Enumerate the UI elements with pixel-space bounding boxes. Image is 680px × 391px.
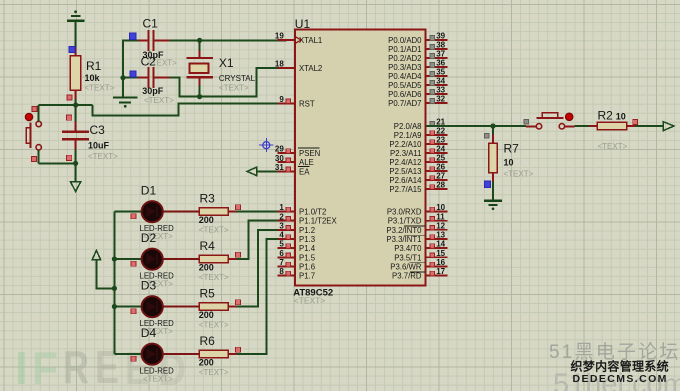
pin marker pin 37 (430, 54, 435, 59)
svg-text:F: F (32, 342, 58, 391)
svg-text:P2.5/A13: P2.5/A13 (389, 167, 421, 176)
svg-text:10: 10 (504, 158, 514, 168)
wire C2 to XTAL2 pin 18 (170, 68, 287, 97)
resistor R4 (199, 255, 237, 262)
pin 24 P2.3/A11 stub (425, 152, 447, 154)
pin 8 P1.7 stub (278, 275, 296, 277)
pin 3 P1.2 stub (278, 229, 296, 231)
junction R7 (490, 123, 495, 128)
svg-text:C1: C1 (143, 17, 159, 31)
resistor R1 (70, 48, 80, 100)
origin marker (blue crosshair) (259, 138, 273, 152)
pin marker pin 8 (286, 271, 291, 276)
pin marker pin 26 (430, 167, 435, 172)
pin marker pin 32 (430, 99, 435, 104)
svg-text:P3.7/RD: P3.7/RD (392, 272, 422, 281)
pin marker pin 9 (286, 99, 291, 104)
pin 6 P1.5 stub (278, 256, 296, 258)
svg-text:9: 9 (279, 95, 284, 104)
pin 14 P3.4/T0 stub (425, 247, 447, 249)
svg-text:XTAL2: XTAL2 (299, 64, 322, 73)
power symbol (top rail) (67, 10, 85, 20)
svg-text:26: 26 (436, 163, 445, 172)
svg-text:5: 5 (279, 240, 284, 249)
svg-text:31: 31 (275, 163, 284, 172)
svg-text:33: 33 (436, 86, 445, 95)
pin 1 P1.0/T2 stub (278, 211, 296, 213)
button SW2 red actuator dot (566, 113, 573, 120)
pin marker pin 4 (286, 235, 291, 240)
svg-text:38: 38 (436, 41, 445, 50)
svg-text:8: 8 (279, 267, 284, 276)
pin 4 P1.3 stub (278, 238, 296, 240)
svg-text:XTAL1: XTAL1 (299, 36, 322, 45)
svg-text:D4: D4 (141, 326, 157, 340)
svg-text:34: 34 (436, 77, 445, 86)
pin marker pin 3 (286, 226, 291, 231)
svg-text:<TEXT>: <TEXT> (88, 152, 118, 161)
pin marker pin 14 (430, 244, 435, 249)
svg-text:<TEXT>: <TEXT> (219, 84, 249, 93)
svg-text:X1: X1 (219, 56, 234, 70)
wire bus to LED D3 (114, 306, 141, 308)
pin marker pin 31 (286, 167, 291, 172)
svg-text:30pF: 30pF (142, 86, 164, 96)
svg-text:19: 19 (275, 32, 284, 41)
svg-text:ALE: ALE (299, 158, 314, 167)
wire bus to LED D1 (114, 211, 141, 213)
push button SW2 (526, 113, 575, 129)
svg-text:<TEXT>: <TEXT> (143, 374, 173, 383)
wire power to R1 (75, 21, 77, 48)
svg-text:7: 7 (279, 258, 284, 267)
pin marker pin 39 (430, 36, 435, 41)
pin marker pin 15 (430, 253, 435, 258)
pin 31 EA stub (278, 170, 296, 172)
svg-text:CRYSTAL: CRYSTAL (219, 74, 256, 83)
pin marker pin 36 (430, 63, 435, 68)
pin marker pin 7 (286, 262, 291, 267)
capacitor C1 (138, 30, 170, 51)
junction bus D3 (112, 304, 117, 309)
op-amp U1 body (AT89C52 MCU) (295, 30, 425, 286)
pin 22 P2.1/A9 stub (425, 134, 447, 136)
pin marker pin 23 (430, 140, 435, 145)
svg-text:D3: D3 (141, 279, 157, 293)
wire bus to LED D4 (114, 353, 141, 355)
svg-text:<TEXT>: <TEXT> (598, 142, 628, 151)
pin marker R3 (236, 205, 241, 210)
pin marker pin 21 (430, 122, 435, 127)
ground (under C2) (113, 98, 138, 108)
pin 39 P0.0/AD0 stub (425, 39, 447, 41)
svg-text:PSEN: PSEN (299, 149, 320, 158)
svg-text:<TEXT>: <TEXT> (199, 273, 229, 282)
pin 10 P3.0/RXD stub (425, 211, 447, 213)
svg-text:29: 29 (275, 145, 284, 154)
svg-text:10k: 10k (85, 73, 101, 83)
pin marker pin 33 (430, 90, 435, 95)
resistor R2 (589, 122, 635, 129)
pin 18 XTAL2 stub (278, 67, 296, 69)
svg-text:P3.2/INT0: P3.2/INT0 (386, 226, 422, 235)
wire SW1 top lead (38, 105, 40, 121)
marker blue R1 top (69, 47, 75, 53)
wire SW1 bottom lead (38, 150, 40, 163)
pin marker R6 (236, 347, 241, 352)
svg-text:32: 32 (436, 95, 445, 104)
svg-text:24: 24 (436, 145, 445, 154)
svg-text:37: 37 (436, 50, 445, 59)
wire switch to R2 (575, 125, 590, 127)
input terminal arrow on EA (247, 167, 257, 176)
svg-text:18: 18 (275, 60, 284, 69)
pin 12 P3.2/INT0 stub (425, 229, 447, 231)
pin marker D2 (131, 261, 136, 266)
pin 23 P2.2/A10 stub (425, 143, 447, 145)
pin 25 P2.4/A12 stub (425, 161, 447, 163)
svg-text:36: 36 (436, 59, 445, 68)
svg-text:<TEXT>: <TEXT> (294, 296, 326, 306)
pin marker pin 24 (430, 149, 435, 154)
crystal X1 (186, 51, 213, 86)
wire to C2 (123, 77, 138, 79)
svg-text:P1.0/T2: P1.0/T2 (299, 208, 326, 217)
pin marker D3 (131, 309, 136, 314)
svg-text:<TEXT>: <TEXT> (144, 96, 174, 105)
svg-text:6: 6 (279, 249, 284, 258)
wire R6 to pin 4 (237, 239, 296, 354)
pin marker pin 30 (286, 158, 291, 163)
svg-text:16: 16 (436, 258, 445, 267)
capacitor C3 (62, 122, 89, 150)
pin marker R5 (236, 300, 241, 305)
resistor R7 (489, 135, 497, 182)
svg-text:10: 10 (436, 203, 445, 212)
svg-text:10uF: 10uF (88, 140, 110, 150)
junction crystal bottom (197, 94, 202, 99)
ground (under R7) (484, 201, 502, 210)
LED D1 (142, 201, 199, 222)
svg-text:织梦内容管理系统: 织梦内容管理系统 (571, 358, 669, 373)
LED D3 (142, 296, 199, 317)
svg-text:P0.3/AD3: P0.3/AD3 (388, 63, 421, 72)
pin marker pin 16 (430, 262, 435, 267)
svg-text:27: 27 (436, 172, 445, 181)
faint bottom-left watermark letters (15, 341, 186, 391)
svg-text:25: 25 (436, 154, 445, 163)
pin 38 P0.1/AD1 stub (425, 48, 447, 50)
wire node to C3 (75, 105, 77, 122)
svg-text:DEDECMS.COM: DEDECMS.COM (573, 373, 668, 385)
svg-text:P2.2/A10: P2.2/A10 (389, 140, 422, 149)
pin 30 ALE stub (278, 161, 296, 163)
wire crystal top lead (199, 40, 201, 50)
svg-text:39: 39 (436, 32, 445, 41)
svg-text:D2: D2 (141, 231, 157, 245)
wire C1 to XTAL1 pin 19 (170, 39, 287, 41)
pin marker pin 28 (430, 185, 435, 190)
marker blue C1 (130, 33, 136, 39)
wire to ground arrow (75, 163, 77, 181)
svg-text:200: 200 (199, 215, 214, 225)
svg-text:P2.7/A15: P2.7/A15 (389, 185, 422, 194)
wire R1 bottom to node (75, 99, 77, 105)
pin 29 PSEN stub (278, 152, 296, 154)
svg-text:R6: R6 (200, 334, 216, 348)
pin marker SW1 bottom (32, 156, 37, 161)
svg-text:10: 10 (616, 111, 626, 121)
junction C1/C2/ground (120, 75, 125, 80)
pin 36 P0.3/AD3 stub (425, 66, 447, 68)
pin marker pin 38 (430, 45, 435, 50)
svg-text:P1.6: P1.6 (299, 262, 315, 271)
pin 21 P2.0/A8 stub (425, 125, 447, 127)
pin marker pin 12 (430, 226, 435, 231)
pin marker R2 right (633, 120, 638, 125)
pin marker R1 bottom (67, 95, 72, 100)
svg-text:1: 1 (279, 203, 284, 212)
pin 9 RST stub (278, 102, 296, 104)
wire R7 to ground (492, 182, 494, 201)
wire bus to LED D2 (114, 258, 141, 260)
wire R3 to pin 1 (237, 211, 296, 213)
pin marker C3 bottom (67, 155, 72, 160)
output terminal arrow (right) (663, 122, 674, 131)
svg-text:22: 22 (436, 127, 445, 136)
pin 26 P2.5/A13 stub (425, 170, 447, 172)
pin 16 P3.6/WR stub (425, 266, 447, 268)
svg-text:R: R (63, 341, 89, 391)
svg-text:4: 4 (279, 231, 284, 240)
svg-text:P3.0/RXD: P3.0/RXD (387, 208, 422, 217)
pin 5 P1.4 stub (278, 247, 296, 249)
pin 7 P1.6 stub (278, 266, 296, 268)
svg-text:P1.2: P1.2 (299, 226, 315, 235)
wire EA pin 31 (257, 170, 295, 172)
svg-text:200: 200 (199, 262, 214, 272)
svg-text:P3.3/INT1: P3.3/INT1 (386, 235, 421, 244)
svg-text:R2: R2 (598, 108, 614, 122)
pin 28 P2.7/A15 stub (425, 188, 447, 190)
pin marker pin 35 (430, 72, 435, 77)
pin 34 P0.5/AD5 stub (425, 84, 447, 86)
svg-text:14: 14 (436, 240, 445, 249)
svg-text:P3.5/T1: P3.5/T1 (394, 253, 421, 262)
svg-text:P2.4/A12: P2.4/A12 (389, 158, 421, 167)
junction crystal top (197, 38, 202, 43)
svg-text:200: 200 (199, 357, 214, 367)
pin marker pin 5 (286, 244, 291, 249)
svg-text:17: 17 (436, 267, 445, 276)
svg-text:P0.1/AD1: P0.1/AD1 (388, 45, 421, 54)
svg-text:11: 11 (436, 212, 445, 221)
pin 2 P1.1/T2EX stub (278, 220, 296, 222)
pin marker pin 1 (286, 207, 291, 212)
svg-text:R7: R7 (504, 142, 520, 156)
svg-text:P2.6/A14: P2.6/A14 (389, 176, 422, 185)
pin marker pin 2 (286, 216, 291, 221)
svg-text:13: 13 (436, 231, 445, 240)
svg-text:P1.3: P1.3 (299, 235, 315, 244)
svg-text:RST: RST (299, 99, 315, 108)
svg-text:P0.6/AD6: P0.6/AD6 (388, 90, 421, 99)
wire crystal bottom lead (199, 86, 201, 97)
svg-text:P1.5: P1.5 (299, 253, 316, 262)
pin marker pin 25 (430, 158, 435, 163)
junction R1/C3/button/RST (73, 102, 78, 107)
pin marker pin 10 (430, 207, 435, 212)
junction C3/button/ground (73, 161, 78, 166)
svg-text:P2.0/A8: P2.0/A8 (394, 122, 422, 131)
svg-text:C3: C3 (90, 123, 106, 137)
svg-text:D1: D1 (141, 184, 157, 198)
svg-text:<TEXT>: <TEXT> (199, 225, 229, 234)
pin 13 P3.3/INT1 stub (425, 238, 447, 240)
svg-text:30: 30 (275, 154, 284, 163)
pin marker D1 (131, 214, 136, 219)
marker blue C2 (130, 71, 136, 77)
pin marker R7 top (484, 133, 489, 138)
svg-text:C2: C2 (141, 55, 157, 69)
wire R5 to pin 3 (237, 230, 296, 307)
resistor R5 (199, 303, 237, 310)
svg-text:I: I (15, 342, 28, 391)
pin marker pin 6 (286, 253, 291, 258)
button SW1 red actuator dot (25, 113, 32, 120)
wire junction to R7 (492, 126, 494, 135)
svg-text:P0.2/AD2: P0.2/AD2 (388, 54, 421, 63)
resistor R3 (199, 208, 237, 215)
svg-text:23: 23 (436, 136, 445, 145)
svg-text:P1.1/T2EX: P1.1/T2EX (299, 217, 338, 226)
svg-text:U1: U1 (295, 17, 311, 31)
up arrow terminal (LED supply) (92, 250, 101, 260)
svg-text:P1.7: P1.7 (299, 272, 315, 281)
svg-text:P3.6/WR: P3.6/WR (390, 262, 422, 271)
wire C1 left vertical (123, 40, 138, 77)
LED D2 (142, 249, 199, 270)
pin marker pin 29 (286, 149, 291, 154)
svg-text:P0.7/AD7: P0.7/AD7 (388, 99, 421, 108)
resistor R6 (199, 350, 237, 357)
pin marker R4 (236, 252, 241, 257)
svg-text:R1: R1 (86, 59, 102, 73)
ground arrow (below C3) (70, 182, 80, 192)
pin marker C3 top (67, 115, 72, 120)
wire R4 to pin 2 (237, 221, 296, 259)
pin marker pin 11 (430, 216, 435, 221)
svg-text:35: 35 (436, 68, 445, 77)
svg-text:P0.4/AD4: P0.4/AD4 (388, 72, 422, 81)
wire pin 21 to switch (426, 125, 526, 127)
wire RST to pin 9 (92, 103, 286, 115)
wire LED anode bus (113, 212, 115, 355)
wire SW1 to C3 net (39, 162, 76, 164)
pin marker SW1 top (32, 107, 37, 112)
svg-text:<TEXT>: <TEXT> (199, 368, 229, 377)
svg-text:P3.4/T0: P3.4/T0 (394, 244, 422, 253)
svg-text:<TEXT>: <TEXT> (504, 170, 534, 179)
svg-text:EA: EA (299, 167, 310, 176)
svg-text:<TEXT>: <TEXT> (85, 84, 115, 93)
pin 19 clock input arrow (296, 37, 302, 43)
wire bus to up-arrow terminal (96, 260, 114, 288)
svg-text:R5: R5 (200, 286, 216, 300)
svg-text:P2.1/A9: P2.1/A9 (394, 131, 422, 140)
capacitor C2 (138, 67, 170, 88)
pin marker D4 (131, 356, 136, 361)
svg-text:2: 2 (279, 212, 284, 221)
pin marker pin 34 (430, 81, 435, 86)
svg-text:R3: R3 (200, 191, 216, 205)
svg-text:P2.3/A11: P2.3/A11 (390, 149, 422, 158)
pin 35 P0.4/AD4 stub (425, 75, 447, 77)
pin 17 P3.7/RD stub (425, 275, 447, 277)
pin 11 P3.1/TXD stub (425, 220, 447, 222)
wire button to node RST (39, 104, 93, 106)
pin marker pin 27 (430, 176, 435, 181)
pin 19 XTAL1 stub (278, 39, 296, 41)
wire R2 to output terminal (635, 125, 663, 127)
junction bus arrow (112, 286, 117, 291)
marker blue R7 bottom (484, 181, 490, 187)
pin 27 P2.6/A14 stub (425, 179, 447, 181)
wire to ground C2 (122, 78, 124, 97)
pin marker SW2 left (524, 120, 529, 125)
pin marker pin 22 (430, 131, 435, 136)
pin 37 P0.2/AD2 stub (425, 57, 447, 59)
svg-text:200: 200 (199, 310, 214, 320)
pin 32 P0.7/AD7 stub (425, 102, 447, 104)
svg-text:P1.4: P1.4 (299, 244, 316, 253)
pin 15 P3.5/T1 stub (425, 256, 447, 258)
svg-text:P3.1/TXD: P3.1/TXD (388, 217, 422, 226)
svg-text:12: 12 (436, 221, 445, 230)
LED D4 (142, 344, 199, 365)
pin marker pin 13 (430, 235, 435, 240)
svg-text:28: 28 (436, 181, 445, 190)
svg-text:R4: R4 (200, 239, 216, 253)
svg-text:15: 15 (436, 249, 445, 258)
svg-text:<TEXT>: <TEXT> (199, 320, 229, 329)
svg-text:3: 3 (279, 221, 284, 230)
push button SW1 (26, 121, 41, 150)
pin 33 P0.6/AD6 stub (425, 93, 447, 95)
junction bus D2 (112, 256, 117, 261)
svg-text:P0.5/AD5: P0.5/AD5 (388, 81, 422, 90)
pin marker pin 17 (430, 271, 435, 276)
wire C3 to ground node (75, 150, 77, 164)
svg-text:P0.0/AD0: P0.0/AD0 (388, 36, 422, 45)
